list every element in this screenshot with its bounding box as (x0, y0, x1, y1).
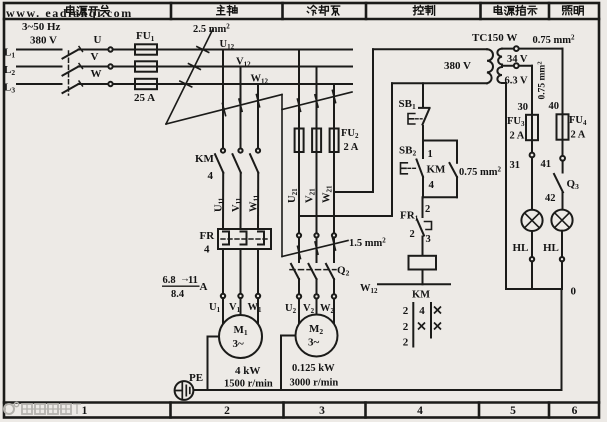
node terminal W2 (332, 294, 336, 298)
svg-text:4: 4 (208, 170, 214, 182)
wire L3 bus (79, 83, 353, 85)
node U1 label (209, 302, 221, 314)
node V11 label (231, 197, 243, 212)
svg-text:0: 0 (571, 286, 577, 298)
label FR1 poles 2 (410, 229, 415, 240)
wire U2 to motor (298, 299, 300, 323)
label 0.75 mm2 vertical (537, 61, 548, 99)
thermal relay FR box (218, 229, 271, 249)
svg-text:30: 30 (518, 102, 529, 113)
svg-text:2: 2 (403, 337, 409, 349)
node W12 (251, 74, 269, 86)
fuse FU4 (557, 114, 569, 139)
node terminal 31 (530, 153, 535, 158)
wire lamp right bottom (561, 231, 563, 257)
svg-text:0.125 kW: 0.125 kW (292, 363, 335, 374)
fuse FU2 pole 3 (330, 129, 339, 153)
svg-text:A: A (200, 281, 208, 293)
label M1 3ph (233, 324, 248, 350)
node U2 label (285, 303, 297, 315)
label 3000 r/min (290, 378, 339, 389)
svg-text:FR: FR (200, 230, 216, 242)
label FU1 (136, 30, 155, 43)
wire U2 (298, 279, 300, 294)
cable run 2.5mm2 diagonal A (166, 29, 213, 124)
node 40 label (549, 101, 560, 112)
contactor KM aux blade (450, 163, 458, 177)
label 1.5 mm2 (349, 237, 386, 250)
label FU2 (341, 128, 359, 153)
wire L2 in (17, 66, 62, 68)
node L1 (4, 47, 15, 60)
node W2 label (320, 303, 335, 315)
label KM main (195, 153, 215, 182)
svg-text:3~: 3~ (233, 338, 245, 350)
label 3~50 Hz (22, 21, 61, 33)
wire V11 (240, 173, 242, 229)
wire 0 bus (506, 288, 562, 290)
svg-text:3~50 Hz: 3~50 Hz (22, 21, 61, 33)
svg-text:2 A: 2 A (510, 131, 525, 142)
node V21 label (305, 188, 317, 203)
label SB2 (399, 145, 416, 158)
svg-text:4 kW: 4 kW (235, 365, 260, 377)
svg-text:4: 4 (419, 305, 425, 317)
node column 3 (319, 405, 325, 417)
fuse FU1 pole 1 (135, 44, 157, 54)
cable run vertical link (281, 95, 283, 257)
svg-text:5: 5 (510, 405, 516, 417)
svg-text:0.75 mm2: 0.75 mm2 (533, 34, 576, 47)
svg-text:4: 4 (429, 179, 435, 191)
node terminal sec mid (514, 63, 519, 68)
wire W1 to motor (257, 298, 259, 324)
switch QS blade L2 (63, 64, 83, 76)
wire lamp left bottom (531, 231, 533, 257)
switch Q2 blade 1 (291, 264, 299, 279)
node U (94, 34, 102, 46)
wire V1 to motor (240, 298, 242, 316)
label FR1 (400, 210, 419, 223)
label FR (200, 230, 216, 256)
svg-text:3~: 3~ (308, 337, 320, 349)
fuse FU2 inner wires (299, 129, 334, 153)
transformer TC secondary 6.3V winding (497, 65, 502, 84)
wire M2 frame to PE rail (281, 336, 296, 391)
wire U21 drop (298, 50, 300, 234)
svg-text:8.4: 8.4 (171, 289, 185, 300)
node terminal Q2-3 (332, 233, 336, 237)
wire secondary top to 40 (502, 48, 563, 50)
node 31 label (510, 160, 521, 171)
footer column numbers row (82, 405, 578, 417)
conductor tick C3 (332, 90, 335, 102)
node V1 label (229, 302, 241, 314)
label TC150 W (472, 32, 517, 44)
lamp HL left (521, 210, 542, 231)
wire KM aux bottom (456, 177, 458, 197)
conductor tick D2 (315, 242, 318, 254)
wire SB2 bottom (422, 177, 424, 198)
svg-text:HL: HL (513, 242, 529, 254)
wire L1 in (17, 49, 62, 51)
svg-text:41: 41 (541, 159, 552, 170)
conductor tick D1 (298, 246, 301, 258)
node W (91, 68, 102, 80)
label FU4 (569, 115, 587, 141)
thermal contact FR1 hook (425, 222, 432, 230)
label 0.75 mm2 (459, 166, 502, 179)
contactor KM main pole 1 (215, 149, 225, 173)
fuse FU2 pole 2 (312, 129, 321, 153)
coil KM (409, 256, 437, 270)
svg-text:1.5 mm2: 1.5 mm2 (349, 237, 386, 250)
fuse FU1 pole 3 (135, 79, 157, 89)
wire 40 drop (562, 49, 564, 115)
conductor tick A3 (180, 81, 192, 87)
fuse FU3 (526, 115, 538, 140)
svg-text:0.75 mm2: 0.75 mm2 (459, 166, 502, 179)
label HL right (543, 242, 559, 254)
wire Q2 stubs (299, 238, 334, 263)
wire node 2 stub (422, 197, 424, 217)
svg-text:1: 1 (82, 405, 88, 417)
svg-text:2 A: 2 A (571, 130, 586, 141)
svg-text:2 A: 2 A (344, 142, 359, 153)
wire 0 to PE rail (561, 289, 563, 390)
conductor tick B3 (256, 95, 259, 107)
node terminal U1 (221, 294, 225, 298)
node 1 label (428, 149, 433, 160)
wire M1 frame to PE rail (208, 337, 220, 391)
wire 31 to lamp (531, 157, 533, 210)
wire secondary bottom to 0 (502, 83, 506, 289)
wire U1 (222, 249, 224, 294)
pushbutton SB2 actuator (401, 163, 418, 174)
transformer TC secondary 34V winding (497, 49, 502, 65)
thermal contact FR1 blade (417, 220, 424, 236)
svg-text:PE: PE (189, 372, 203, 384)
conductor tick D3 (333, 238, 336, 250)
node column 4 (417, 405, 423, 417)
motor M1 circle (219, 315, 262, 358)
svg-text:KM: KM (427, 164, 447, 176)
node column 2 (224, 405, 230, 417)
wire W1 (257, 249, 259, 294)
header cell 照明 (563, 6, 584, 15)
contactor KM main pole 3 (250, 149, 260, 173)
svg-text:TC150 W: TC150 W (472, 32, 517, 44)
node L2 (4, 64, 15, 77)
wire latch branch top (423, 140, 457, 142)
svg-text:380 V: 380 V (30, 35, 57, 47)
wire tap U21 to control feed (299, 215, 392, 217)
wire V21 drop (316, 67, 318, 234)
svg-text:2: 2 (224, 405, 230, 417)
contactor KM aux stub (456, 141, 458, 163)
node column 1 (82, 405, 88, 417)
pushbutton SB1 contact (419, 108, 430, 125)
svg-text:4: 4 (417, 405, 423, 417)
wire V2 to motor (316, 299, 318, 315)
svg-text:31: 31 (510, 160, 521, 171)
svg-text:1500 r/min: 1500 r/min (224, 379, 273, 390)
node U11 label (214, 197, 226, 212)
wire SB1 branch stub (422, 83, 424, 106)
watermark www.eadianqi.com (6, 6, 133, 20)
node terminal 41 (560, 156, 565, 161)
table KM contact usage lines (413, 303, 431, 347)
wire to transformer primary bottom (392, 82, 487, 84)
label KM coil (412, 290, 430, 301)
switch Q3 blade (554, 174, 563, 192)
svg-text:3000 r/min: 3000 r/min (290, 378, 339, 389)
conductor tick A2 (189, 64, 201, 70)
switch Q2 blade 2 (309, 264, 317, 279)
header cell 电源开关 (67, 6, 109, 16)
node W1 label (248, 302, 263, 314)
wire 30 drop (531, 66, 533, 115)
svg-text:1: 1 (428, 149, 433, 160)
label Q3 (567, 178, 580, 191)
svg-text:3: 3 (426, 234, 431, 245)
wire PE rail (193, 389, 562, 391)
svg-text:2: 2 (403, 305, 409, 317)
wire 42 (562, 192, 564, 209)
thermal relay FR heater 2 (241, 232, 247, 245)
node terminal W (108, 82, 112, 86)
svg-text:4: 4 (204, 244, 210, 256)
wire lamp left to 0 (531, 261, 533, 289)
wire V1 (240, 249, 242, 294)
svg-text:6.3 V: 6.3 V (505, 76, 529, 87)
svg-text:2: 2 (410, 229, 415, 240)
switch QS mechanical link (68, 51, 70, 95)
wire tap W21 to control feed (334, 191, 373, 193)
wire control feed riser 2 (391, 83, 393, 216)
fuse FU2 pole 1 (295, 129, 304, 153)
svg-text:3: 3 (319, 405, 325, 417)
header cell 冷却泵 (307, 5, 339, 15)
svg-text:6.8: 6.8 (163, 275, 176, 286)
node V (91, 51, 99, 63)
node W12 net label (360, 283, 378, 295)
wire W11 (257, 173, 259, 229)
wire W2 to motor (333, 299, 335, 323)
wire L2 bus (79, 66, 353, 68)
thermal relay FR link (221, 238, 268, 240)
watermark bottom-left logo (4, 402, 81, 414)
node terminal V (108, 64, 112, 68)
header cell 控制 (413, 5, 434, 15)
label 0.125 kW (292, 363, 335, 374)
power switch section texts (4, 21, 269, 104)
node U21 label (287, 188, 299, 203)
label 0.75 mm2 top (533, 34, 576, 47)
wire 31 (531, 140, 533, 153)
wire W2 (333, 279, 335, 294)
wire W21 drop (333, 84, 335, 233)
conductor tick B2 (239, 99, 242, 111)
switch Q2 mechanical link (290, 269, 336, 271)
label KM aux (427, 164, 447, 192)
node terminal lamp right (560, 257, 564, 261)
contactor KM main pole 2 (233, 149, 243, 173)
node column 6 (572, 405, 578, 417)
node column 5 (510, 405, 516, 417)
svg-text:KM: KM (195, 153, 215, 165)
wire U11 (222, 173, 224, 229)
node L3 (4, 82, 15, 95)
svg-text:42: 42 (545, 193, 556, 204)
wire secondary mid to 30 (502, 65, 532, 67)
thermal relay FR heater 1 (223, 232, 229, 245)
svg-text:2: 2 (425, 204, 430, 215)
wire node 3 stub (422, 237, 424, 256)
wire coil to W12 rail (422, 270, 424, 285)
header cell 主轴 (217, 5, 237, 15)
svg-text:380 V: 380 V (444, 60, 471, 72)
node terminal V1 (238, 294, 242, 298)
svg-text:40: 40 (549, 101, 560, 112)
wire to transformer primary top (373, 48, 487, 50)
label 25 A (134, 92, 155, 104)
svg-text:6: 6 (572, 405, 578, 417)
wire SB1 to node 1 (422, 126, 424, 141)
wire U1 to motor (222, 298, 224, 324)
table KM contact usage text (403, 305, 426, 349)
header cell 电源指示 (494, 5, 537, 15)
svg-text:34 V: 34 V (507, 54, 528, 65)
label 1500 r/min (224, 379, 273, 390)
label Q2 (337, 265, 350, 278)
wire L1 bus (79, 49, 353, 51)
conductor tick C1 (297, 99, 300, 111)
node terminal U (108, 47, 112, 51)
label SB1 (399, 98, 416, 111)
svg-text:2: 2 (403, 321, 409, 333)
node 42 label (545, 193, 556, 204)
svg-text:HL: HL (543, 242, 559, 254)
wire W12 drop (257, 84, 259, 148)
label PE (189, 372, 203, 384)
label HL left (513, 242, 529, 254)
svg-text:V: V (91, 51, 99, 63)
wire U12 drop (222, 50, 224, 149)
transformer TC primary winding (487, 49, 493, 83)
node U12 (220, 39, 235, 51)
label 4 kW (235, 365, 260, 377)
ground PE symbol (175, 381, 194, 400)
motor M2 circle (296, 315, 338, 357)
node W21 label (322, 185, 334, 203)
node 3 label (426, 234, 431, 245)
wire SB2 stub (422, 141, 424, 159)
svg-text:U: U (94, 34, 102, 46)
conductor tick A1 (197, 47, 209, 53)
node terminal lamp left (530, 257, 534, 261)
svg-text:W: W (91, 68, 102, 80)
node W11 label (249, 194, 261, 212)
svg-text:11: 11 (188, 275, 198, 286)
label 6.8-11/8.4 A (162, 274, 208, 301)
svg-text:KM: KM (412, 290, 430, 301)
conductor tick C2 (315, 95, 318, 107)
conductor tick B1 (222, 103, 225, 115)
node terminal U2 (297, 294, 301, 298)
pushbutton SB1 actuator (408, 114, 422, 125)
pushbutton SB2 contact (417, 160, 424, 177)
node terminal V2 (314, 294, 318, 298)
label 380 V (30, 35, 57, 47)
node 41 label (541, 159, 552, 170)
label M2 3ph (308, 323, 323, 349)
wire lamp right to 0 (561, 261, 563, 289)
label FU3 (507, 116, 525, 142)
node terminal Q2-2 (314, 233, 318, 237)
node 30 label (518, 102, 529, 113)
node 0 label (571, 286, 577, 298)
wire V2 (316, 279, 318, 294)
svg-text:0.75 mm2: 0.75 mm2 (537, 61, 548, 99)
label 2.5 mm2 (193, 23, 230, 36)
label 6.3 V (505, 76, 529, 87)
wire 41 (562, 140, 564, 156)
wire V12 drop (240, 67, 242, 149)
wire W12 rail (378, 283, 450, 285)
thermal relay FR heater 3 (258, 232, 264, 245)
cable run diagonal B (166, 95, 282, 125)
switch Q2 blade 3 (326, 264, 334, 279)
lamp HL right (551, 210, 572, 231)
label 34 V (507, 54, 528, 65)
node terminal W1 (256, 294, 260, 298)
wire L3 in (17, 83, 62, 85)
cable run 1.5mm2 diagonal D (282, 241, 348, 257)
switch Q3 stub (562, 161, 564, 173)
node terminal sec top (514, 46, 519, 51)
switch QS blade L1 (63, 47, 83, 59)
svg-text:25 A: 25 A (134, 92, 155, 104)
wire control feed riser (372, 49, 374, 192)
node V12 (236, 57, 251, 69)
node 2 label (425, 204, 430, 215)
label 380 V primary (444, 60, 471, 72)
node V2 label (303, 303, 315, 315)
cable run diagonal C (282, 92, 352, 110)
wire latch rejoin (423, 196, 457, 198)
fuse FU1 pole 2 (135, 61, 157, 71)
node terminal Q2-1 (297, 233, 301, 237)
switch QS blade L3 (63, 81, 83, 93)
